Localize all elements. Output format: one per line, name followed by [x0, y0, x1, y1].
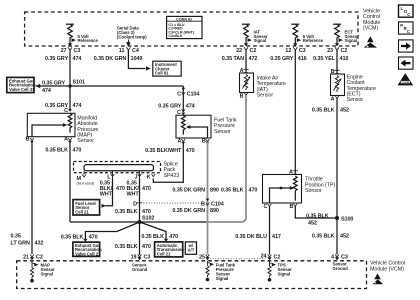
- svg-text:11: 11: [119, 48, 125, 54]
- svg-text:C2: C2: [274, 254, 281, 260]
- svg-text:S101: S101: [73, 79, 85, 85]
- splice pin M (not used): [77, 171, 95, 186]
- MAP Sensor Signal (pin 21 internal): [30, 261, 55, 283]
- MAP sensor pin C: [64, 108, 72, 114]
- Splice Pack SP423 label: [164, 161, 180, 178]
- svg-text:(VCM): (VCM): [363, 26, 378, 32]
- svg-text:Signal: Signal: [216, 276, 229, 281]
- svg-text:Valve Cell 31: Valve Cell 31: [9, 87, 35, 92]
- svg-text:27: 27: [61, 48, 67, 54]
- svg-text:417: 417: [272, 234, 281, 240]
- Vehicle Control Module (VCM) label bottom right: [370, 261, 405, 273]
- CONN ID table: [167, 16, 202, 38]
- splice bus bar: [84, 165, 154, 171]
- wire: FTP A down, elbow left to splice K: [153, 142, 183, 182]
- svg-text:WHT: WHT: [127, 192, 140, 198]
- resistor: IAT Sensor Signal (pin 22): [242, 24, 250, 40]
- svg-text:0.35 BLK: 0.35 BLK: [115, 244, 138, 250]
- svg-text:470: 470: [89, 234, 98, 240]
- svg-text:Signal: Signal: [41, 272, 54, 277]
- svg-text:Sensor: Sensor: [305, 188, 322, 194]
- Throttle Position (TP) Sensor box: [263, 175, 302, 204]
- MAP wiper arrow: [32, 125, 64, 137]
- wire: S102 horizontal right to FTP B wire area: [140, 221, 207, 223]
- svg-text:474: 474: [186, 104, 195, 110]
- Automatic Transmission Cell 21 box: [155, 242, 185, 257]
- pin 24 C2 connector symbol: [261, 254, 281, 261]
- nav icon: zoom triangle: [398, 73, 414, 85]
- wire: splice J down to D / S102 / pin 19: [139, 179, 141, 256]
- wire: TP C down to pin 24: [269, 206, 271, 255]
- Engine Coolant Temperature (ECT) Sensor box: [331, 74, 345, 96]
- svg-text:S102: S102: [142, 216, 154, 222]
- svg-text:Module (VCM): Module (VCM): [370, 266, 404, 272]
- svg-text:C2: C2: [36, 254, 43, 260]
- svg-text:C: C: [263, 204, 267, 210]
- FTP pin B: [202, 138, 210, 144]
- MAP pin B: [26, 137, 34, 144]
- svg-text:SP423: SP423: [164, 173, 180, 179]
- svg-text:Cell 21: Cell 21: [157, 251, 171, 256]
- svg-text:C2: C2: [250, 48, 257, 54]
- svg-text:K: K: [147, 174, 151, 180]
- svg-text:C104: C104: [211, 202, 224, 208]
- svg-text:Valve Cell 21: Valve Cell 21: [75, 251, 101, 256]
- svg-text:Sensor: Sensor: [214, 129, 231, 135]
- svg-text:S100: S100: [341, 217, 353, 223]
- wire label 0.35 BLK/WHT 470 (J wire): [127, 180, 151, 197]
- svg-text:23: 23: [327, 48, 333, 54]
- Fuel Tank Pressure Sensor box: [176, 115, 211, 138]
- svg-text:24: 24: [261, 254, 267, 260]
- svg-text:0.35 DK GRN: 0.35 DK GRN: [172, 208, 205, 214]
- wire: pin27 down to S101 and MAP C: [69, 50, 71, 109]
- MAP potentiometer resistor: [68, 113, 72, 132]
- svg-text:Ground: Ground: [132, 267, 148, 272]
- svg-text:0.35 BLK: 0.35 BLK: [312, 233, 335, 239]
- ECT pin A: [331, 96, 339, 103]
- resistor: 5 Volt Reference (pin 12): [291, 24, 299, 40]
- Instrument Cluster Cell 81 box: [153, 61, 181, 76]
- ECT sensor name: [347, 74, 377, 103]
- svg-text:LT GRN: LT GRN: [11, 240, 31, 246]
- Fuel Level Sensor Cell 21 box: [73, 200, 100, 215]
- wire: ECT A down to S100 and pin 4: [336, 98, 338, 255]
- svg-text:Signal: Signal: [278, 272, 291, 277]
- FTP wiper arrow: [190, 127, 208, 138]
- Manifold Absolute Pressure (MAP) Sensor box: [27, 113, 75, 136]
- w/ A/T option box: [185, 242, 196, 254]
- svg-text:C3: C3: [341, 254, 348, 260]
- svg-text:470: 470: [116, 186, 125, 192]
- svg-text:A: A: [64, 137, 68, 143]
- svg-text:0.35 BLK: 0.35 BLK: [221, 188, 244, 194]
- arrow into EGR box: [35, 84, 40, 88]
- wire: S102 diagonal down-left to EGR cell 21: [85, 222, 139, 239]
- svg-text:470: 470: [142, 244, 151, 250]
- svg-text:Ground: Ground: [333, 266, 349, 271]
- svg-text:474: 474: [73, 103, 82, 109]
- serial data arrow to pin 11: [127, 40, 129, 43]
- Splice Pack dashed box: [74, 162, 161, 173]
- pin 21 C2 connector symbol: [23, 254, 43, 260]
- ECT thermistor: [335, 76, 338, 93]
- Sensor Ground (pin 4 internal): [333, 262, 349, 272]
- wire: IAT B down (grey) elbow left to S102 line: [206, 95, 246, 222]
- svg-text:C4: C4: [132, 48, 139, 54]
- wire: pin23 down to ECT B: [336, 50, 338, 74]
- svg-text:Signal: Signal: [254, 38, 267, 43]
- svg-text:432: 432: [35, 240, 44, 246]
- svg-text:D: D: [133, 202, 137, 208]
- svg-text:0.35 BLK: 0.35 BLK: [141, 234, 164, 240]
- svg-text:C: C: [177, 92, 181, 98]
- TP sensor name: [305, 177, 336, 194]
- node S100: [335, 216, 339, 220]
- wire label 0.35 BLK/WHT 470 (L wire): [100, 180, 125, 197]
- svg-text:0.35 TAN: 0.35 TAN: [222, 56, 244, 62]
- svg-text:410: 410: [340, 56, 349, 62]
- svg-text:22: 22: [236, 48, 242, 54]
- svg-text:472: 472: [249, 56, 258, 62]
- pin 23 C2 connector symbol: [327, 43, 347, 54]
- FTP potentiometer resistor: [182, 115, 186, 134]
- pin 27 C3 connector symbol: [61, 43, 81, 54]
- resistor: ECT Sensor Signal (pin 23): [333, 24, 341, 40]
- svg-text:474: 474: [42, 88, 51, 94]
- svg-text:C3: C3: [299, 48, 306, 54]
- svg-text:B: B: [201, 202, 205, 208]
- svg-text:ZOOM: ZOOM: [401, 81, 409, 85]
- svg-text:Reference: Reference: [78, 38, 99, 43]
- wire: pin22 down to IAT A: [245, 50, 247, 73]
- svg-text:CONN ID: CONN ID: [176, 17, 192, 21]
- svg-text:C3: C3: [74, 48, 81, 54]
- IAT thermistor: [244, 75, 247, 91]
- svg-text:470: 470: [142, 186, 151, 192]
- svg-text:B: B: [289, 204, 293, 210]
- svg-text:C: C: [407, 29, 410, 34]
- pin 22 C2 connector symbol: [236, 43, 256, 54]
- in-line connector B C104 with dotted gang line: [144, 199, 224, 208]
- svg-text:25: 25: [199, 254, 205, 260]
- Exhaust Gas Recirculation Valve Cell 31 box: [7, 77, 36, 92]
- splice pin L: [107, 171, 114, 181]
- Vehicle Control Module (VCM) label top right: [363, 9, 380, 32]
- svg-text:0.35 DK BLU: 0.35 DK BLU: [235, 234, 267, 240]
- wire pin27 stub: [69, 40, 71, 44]
- TPS Sensor Signal (pin 24 internal): [268, 261, 292, 282]
- svg-text:A/T: A/T: [188, 248, 195, 253]
- svg-text:470: 470: [186, 148, 195, 154]
- svg-text:0.35 BLK: 0.35 BLK: [306, 213, 329, 219]
- wire: S102 horizontal left to MAP A wire: [70, 221, 140, 223]
- pin 25 connector symbol: [199, 254, 210, 260]
- svg-text:4: 4: [331, 254, 334, 260]
- MAP sensor name: [77, 115, 98, 144]
- wire: FTP B (grey) down to pin 25: [207, 142, 209, 255]
- svg-text:Sensor: Sensor: [77, 138, 94, 144]
- svg-text:1049: 1049: [131, 56, 143, 62]
- svg-text:0.35 BLK: 0.35 BLK: [312, 108, 335, 114]
- svg-text:0.35 BLK: 0.35 BLK: [61, 234, 84, 240]
- svg-text:452: 452: [340, 233, 349, 239]
- svg-text:890: 890: [210, 208, 219, 214]
- TP pin A: [289, 170, 298, 177]
- nav icon: left arrow button: [399, 57, 414, 69]
- svg-text:(Not used): (Not used): [77, 182, 95, 186]
- C2 connector gang dotted line: [210, 258, 266, 260]
- wire: MAP A down to S102 row: [69, 141, 71, 222]
- svg-text:0.35 YEL: 0.35 YEL: [313, 56, 336, 62]
- in-line connector C C104: [177, 86, 199, 112]
- nav icon: LOC button: [399, 5, 414, 17]
- svg-text:0.35 BLK: 0.35 BLK: [45, 148, 68, 154]
- svg-text:470: 470: [142, 209, 151, 215]
- svg-text:474: 474: [73, 56, 82, 62]
- splice pin K: [147, 174, 155, 180]
- ECT pin B: [331, 69, 340, 76]
- svg-text:0.35 GRY: 0.35 GRY: [270, 56, 293, 62]
- wire: pin11 C4 down, elbow right to Instrument Cluster: [128, 50, 145, 68]
- wire: S101 horizontal to C104 drop: [40, 85, 184, 87]
- pin 19 C3 connector symbol: [131, 254, 151, 260]
- in-line connector D: [133, 202, 142, 208]
- pin 11 C4 connector symbol: [119, 43, 139, 54]
- svg-text:Cell 21: Cell 21: [75, 209, 89, 214]
- TP wiper arrow: [270, 188, 292, 203]
- VCM top module box (dashed): [25, 12, 358, 46]
- FTP sensor name: [214, 117, 237, 134]
- svg-text:C104: C104: [187, 92, 200, 98]
- svg-text:416: 416: [298, 56, 307, 62]
- node S102: [138, 220, 142, 224]
- svg-text:WHT: WHT: [100, 192, 113, 198]
- pin 4 C3 connector symbol: [331, 254, 348, 260]
- svg-text:(Coolant temp): (Coolant temp): [117, 35, 147, 40]
- svg-text:470: 470: [169, 234, 178, 240]
- svg-text:12: 12: [285, 48, 291, 54]
- hotlink triangles bottom right VCM: [372, 273, 383, 284]
- svg-text:0.35: 0.35: [11, 233, 21, 239]
- IAT pin A: [240, 68, 249, 75]
- svg-text:Sensor: Sensor: [347, 97, 364, 103]
- svg-text:0.35 BLK/WHT: 0.35 BLK/WHT: [145, 148, 182, 154]
- pin 12 C3 connector symbol: [285, 43, 305, 54]
- svg-text:A: A: [177, 138, 181, 144]
- Fuel Tank Pressure Sensor Signal (pin 25 internal): [206, 261, 236, 282]
- Intake Air Temperature (IAT) Sensor box: [240, 73, 254, 93]
- Exhaust Gas Recirculation Valve Cell 21 box: [73, 242, 102, 256]
- svg-text:890: 890: [210, 188, 219, 194]
- resistor: 5 Volt Reference (pin 27): [66, 24, 74, 40]
- svg-text:Reference: Reference: [303, 38, 324, 43]
- svg-text:452: 452: [340, 108, 349, 114]
- nav icon: PRC button: [399, 22, 414, 34]
- svg-text:0.35 GRY: 0.35 GRY: [158, 104, 181, 110]
- svg-text:0.35 GRY: 0.35 GRY: [42, 81, 65, 87]
- wire: pin12 down to TP A: [294, 50, 296, 174]
- svg-text:0.35 GRY: 0.35 GRY: [45, 56, 68, 62]
- VCM bottom module box (dashed): [17, 261, 367, 289]
- splice pin J: [135, 171, 142, 181]
- hotlink triangles top right VCM: [364, 36, 377, 47]
- TP pin C: [263, 204, 271, 210]
- wire: splice L down, elbow left to Fuel Level arrow: [105, 179, 112, 206]
- svg-text:B: B: [26, 137, 30, 143]
- svg-text:B: B: [202, 138, 206, 144]
- svg-text:452: 452: [308, 220, 317, 226]
- svg-text:0.35 BLK: 0.35 BLK: [115, 209, 138, 215]
- svg-text:C3: C3: [144, 254, 151, 260]
- wire: TP B elbow right to S100: [295, 206, 337, 218]
- wire: S102 diagonal down-right to Automatic Transmission: [140, 222, 167, 239]
- TP pin B: [289, 204, 297, 210]
- svg-text:B: B: [240, 93, 244, 99]
- svg-text:Signal: Signal: [345, 38, 358, 43]
- svg-text:Cell 81: Cell 81: [155, 71, 169, 76]
- svg-text:19: 19: [131, 254, 137, 260]
- svg-text:C4=BLK: C4=BLK: [168, 34, 182, 38]
- IAT pin B: [240, 93, 248, 100]
- nav icon: right arrow button: [399, 40, 414, 52]
- svg-text:21: 21: [23, 254, 29, 260]
- MAP pin A: [64, 137, 72, 144]
- FTP pin A: [177, 138, 185, 144]
- svg-text:0.35 DK GRN: 0.35 DK GRN: [172, 188, 205, 194]
- node S101: [68, 84, 71, 87]
- wire: MAP B down to pin 21: [31, 141, 33, 254]
- svg-text:470: 470: [249, 188, 258, 194]
- FTP pin C: [177, 109, 185, 116]
- svg-text:Sensor: Sensor: [257, 93, 274, 99]
- TP potentiometer resistor: [293, 176, 297, 201]
- IAT sensor name: [257, 75, 287, 98]
- svg-text:470: 470: [73, 148, 82, 154]
- svg-text:C2: C2: [341, 48, 348, 54]
- svg-text:0.35 DK GRN: 0.35 DK GRN: [94, 56, 127, 62]
- Sensor Ground (pin 19 internal): [132, 263, 148, 273]
- svg-text:A: A: [331, 96, 335, 102]
